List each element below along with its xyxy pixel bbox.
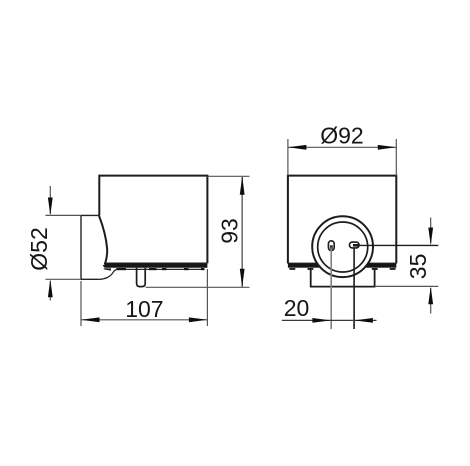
svg-text:107: 107 (125, 296, 163, 322)
svg-text:Ø92: Ø92 (320, 123, 363, 149)
svg-text:Ø52: Ø52 (26, 227, 52, 270)
svg-text:20: 20 (284, 295, 310, 321)
svg-text:35: 35 (405, 254, 431, 280)
svg-text:93: 93 (217, 218, 243, 244)
